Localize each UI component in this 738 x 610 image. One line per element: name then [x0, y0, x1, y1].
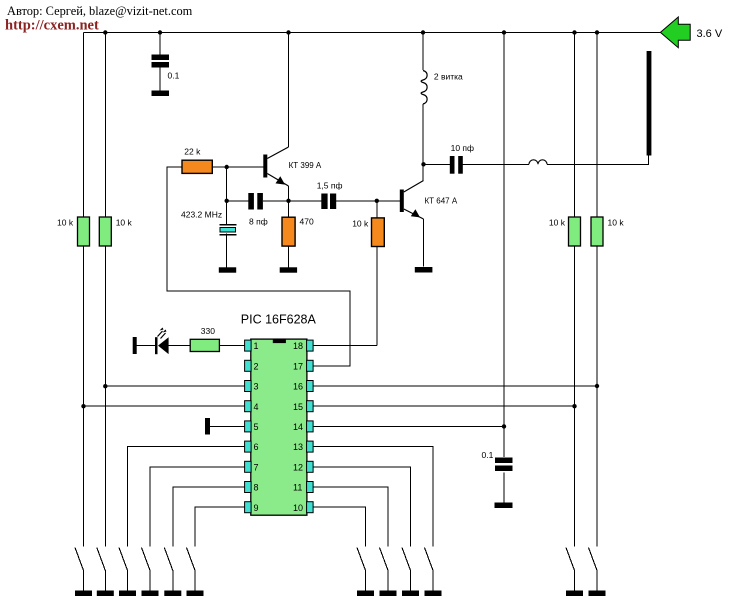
inductor L1 2 vitka: [421, 71, 427, 105]
wire: 10k orange leads: [376, 201, 378, 218]
wire: emitter node to 1.5pf cap: [289, 200, 322, 202]
wire: pin5 to gnd bar: [210, 425, 245, 427]
capacitor C3 1.5pf: [321, 194, 327, 210]
wire: KT399 collector riser: [288, 33, 290, 148]
wire: pin13 bracket: [313, 447, 433, 547]
svg-text:6: 6: [254, 442, 259, 452]
switch S9: [402, 548, 411, 571]
pin 18: [307, 340, 314, 351]
pin 5: [245, 421, 252, 432]
svg-text:10 k: 10 k: [549, 218, 566, 228]
crystal 423.2 MHz: [220, 224, 237, 235]
wire: +3.6V top rail: [84, 32, 661, 34]
svg-text:8: 8: [254, 483, 259, 493]
wire: pin12 bracket: [313, 467, 410, 547]
svg-text:7: 7: [254, 462, 259, 472]
ground under crystal: [219, 267, 236, 272]
svg-text:13: 13: [293, 442, 303, 452]
svg-text:PIC 16F628A: PIC 16F628A: [241, 313, 317, 327]
wire: pin14 row: [313, 425, 504, 427]
pin 11: [307, 482, 314, 493]
switch S8: [380, 548, 389, 571]
svg-text:10 k: 10 k: [57, 218, 74, 228]
wire: inductor branch upper: [422, 33, 424, 71]
svg-text:330: 330: [201, 326, 215, 336]
switch S7: [357, 548, 366, 571]
transistor Q1 KT399A: [263, 155, 267, 178]
wire: 470 resistor leads: [288, 201, 290, 217]
inductor L2 (output choke): [529, 160, 547, 165]
wire: coil to antenna: [547, 156, 649, 165]
pin 16: [307, 381, 314, 392]
wire: pin6 bracket: [128, 447, 245, 547]
resistor R1 10k left-a: [78, 217, 90, 246]
switch S5: [164, 548, 173, 571]
svg-text:22 k: 22 k: [184, 147, 201, 157]
svg-text:8 пф: 8 пф: [249, 216, 268, 226]
svg-text:17: 17: [293, 361, 303, 371]
wire: pin18 lead: [313, 345, 377, 347]
svg-text:1,5 пф: 1,5 пф: [317, 181, 343, 191]
pin 14: [307, 421, 314, 432]
switch S12: [589, 548, 598, 571]
wire: pin10 bracket: [313, 507, 365, 546]
pin 13: [307, 441, 314, 452]
switch S1: [75, 548, 84, 571]
switch S10: [425, 548, 434, 571]
svg-text:14: 14: [293, 422, 303, 432]
svg-text:470: 470: [300, 216, 314, 226]
pin 10: [307, 502, 314, 513]
svg-text:0.1: 0.1: [168, 71, 180, 81]
wire: pin8 bracket: [173, 487, 245, 547]
wire: VDD column to pin14 node: [503, 33, 505, 458]
wire: top 0.1 cap branch: [159, 33, 161, 55]
pin 17: [307, 360, 314, 371]
ground under Q2: [415, 267, 433, 273]
wire: pin1 to resistor 330: [219, 345, 244, 347]
ground under C5: [495, 503, 513, 509]
switch S2: [97, 548, 106, 571]
pin 3: [245, 381, 252, 392]
ground under 470: [280, 267, 297, 272]
wire: pin3 row: [105, 385, 244, 387]
pin 1: [245, 340, 252, 351]
wire: pin15 row: [313, 405, 574, 407]
switches group: [75, 548, 597, 591]
wire: inductor to collector node: [422, 104, 424, 181]
svg-text:http://cxem.net: http://cxem.net: [5, 18, 99, 34]
svg-text:15: 15: [293, 402, 303, 412]
wire: 1.5pf cap to KT647 base: [336, 200, 400, 202]
svg-text:2: 2: [254, 361, 259, 371]
svg-text:16: 16: [293, 382, 303, 392]
ground bar at pin5: [205, 418, 210, 435]
power arrow 3.6V: [660, 17, 690, 48]
svg-text:3: 3: [254, 382, 259, 392]
wire: pin11 bracket: [313, 487, 388, 547]
wire: pin7 bracket: [150, 467, 245, 547]
switch S3: [119, 548, 128, 571]
capacitor C4 10pf: [450, 156, 455, 174]
LED D1: [155, 337, 158, 354]
ground bars under switches: [75, 591, 606, 597]
switch S6: [187, 548, 196, 571]
ground under C1: [152, 91, 170, 97]
wire: pin16 row: [313, 385, 597, 387]
svg-text:11: 11: [293, 483, 302, 493]
svg-text:3.6 V: 3.6 V: [697, 28, 723, 40]
resistor R3 10k right-a: [569, 217, 581, 246]
switch S4: [142, 548, 151, 571]
svg-text:0.1: 0.1: [482, 450, 494, 460]
wire: pin9 bracket: [195, 507, 245, 546]
svg-text:1: 1: [254, 341, 259, 351]
pin 6: [245, 441, 252, 452]
transistor Q2 KT647A: [400, 190, 404, 213]
capacitor C2 8pf: [248, 193, 254, 210]
svg-text:12: 12: [293, 462, 303, 472]
svg-text:2 витка: 2 витка: [434, 72, 463, 82]
pin 12: [307, 461, 314, 472]
battery bar at LED: [133, 337, 137, 354]
svg-text:10: 10: [293, 503, 303, 513]
wire: 10pf output line: [424, 163, 450, 165]
wire: right column 2 (10k, down to switch): [596, 33, 598, 218]
wire: base node down to crystal node: [226, 167, 228, 201]
svg-text:18: 18: [293, 341, 303, 351]
resistor R8 330: [190, 339, 219, 351]
wire: 22k right lead to KT399 base: [212, 166, 263, 168]
wire: right column 1 (10k, down to switch): [574, 33, 576, 218]
svg-text:10 k: 10 k: [352, 219, 369, 229]
antenna: [647, 51, 652, 156]
resistor R5 22k: [182, 160, 212, 173]
svg-text:10 пф: 10 пф: [451, 143, 474, 153]
pin 8: [245, 482, 252, 493]
pin 9: [245, 502, 252, 513]
wire: crystal bottom lead to ground: [226, 234, 228, 268]
pin 4: [245, 401, 252, 412]
switch S11: [566, 548, 575, 571]
resistor R4 10k right-b: [591, 217, 603, 246]
wire: pin4 row: [84, 405, 245, 407]
pin 15: [307, 401, 314, 412]
wire: 8pf cap to emitter node: [263, 200, 289, 202]
svg-text:4: 4: [254, 402, 259, 412]
resistor R7 10k orange: [372, 218, 385, 247]
svg-text:КТ 399 А: КТ 399 А: [289, 161, 322, 170]
svg-text:10 k: 10 k: [116, 218, 133, 228]
wire: 22k left lead: [167, 167, 350, 366]
pin 7: [245, 461, 252, 472]
svg-text:5: 5: [254, 422, 259, 432]
svg-text:Автор: Сергей, blaze@vizit-net: Автор: Сергей, blaze@vizit-net.com: [7, 4, 193, 18]
resistor R6 470: [282, 217, 295, 246]
pin 2: [245, 360, 252, 371]
wire: LED to 330: [169, 345, 191, 347]
svg-text:10 k: 10 k: [608, 218, 625, 228]
wire: 0.1 cap bottom to ground: [503, 473, 505, 503]
capacitor C1 0.1 top: [152, 55, 170, 61]
wire: left column 2 (to R 10k left-b, down to switch S2): [104, 33, 106, 218]
svg-text:9: 9: [254, 503, 259, 513]
wire: KT647 emitter to ground: [423, 219, 425, 267]
resistor R2 10k left-b: [99, 217, 111, 246]
svg-text:423.2 MHz: 423.2 MHz: [181, 210, 222, 220]
svg-text:КТ 647 А: КТ 647 А: [425, 197, 458, 206]
capacitor C5 0.1 bottom: [495, 458, 513, 464]
wire: bar to LED: [137, 345, 155, 347]
wire: node to 8pf cap: [227, 200, 249, 202]
wire: left column 1 (to R 10k left-a, down to switch S1): [83, 33, 85, 218]
wire: crystal top lead: [226, 201, 228, 226]
